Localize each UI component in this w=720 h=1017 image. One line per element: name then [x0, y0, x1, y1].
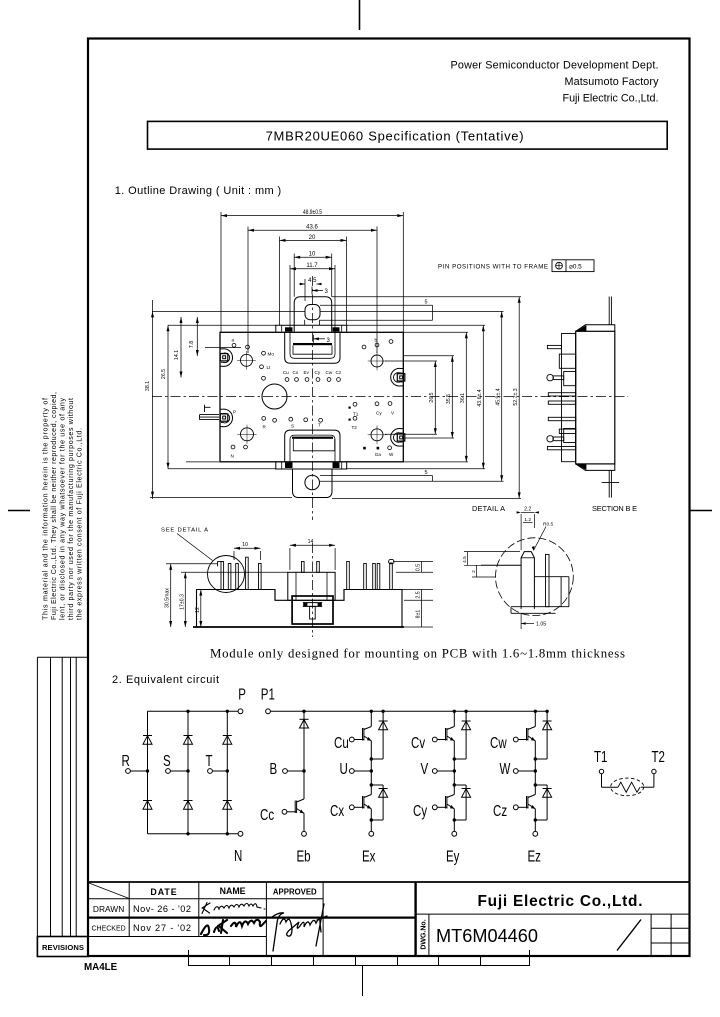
top dimension ladder — [221, 212, 403, 353]
svg-text:2.2: 2.2 — [524, 506, 531, 512]
svg-text:5: 5 — [425, 300, 428, 306]
svg-text:Fuji Electric Co.,Ltd. They sh: Fuji Electric Co.,Ltd. They shall be nei… — [50, 392, 58, 620]
screw cavity — [292, 596, 333, 624]
svg-text:the express written consent of: the express written consent of Fuji Elec… — [76, 428, 84, 620]
svg-text:7MBR20UE060 Specification (Te: 7MBR20UE060 Specification (Tentative) — [266, 129, 524, 144]
node P — [238, 709, 243, 714]
detail A base flange — [511, 607, 569, 614]
U lower IGBT (gate Cx) — [349, 771, 387, 831]
signature K.Hamada — [202, 903, 265, 914]
svg-text:T1: T1 — [353, 412, 359, 417]
svg-text:0.5: 0.5 — [416, 564, 422, 571]
svg-text:3: 3 — [327, 338, 331, 344]
svg-text:8±1: 8±1 — [416, 610, 422, 619]
diode D2 — [184, 736, 193, 745]
svg-text:N: N — [234, 846, 242, 864]
center pedestal — [288, 572, 335, 600]
terminal Ex — [369, 831, 374, 836]
tab hole leader dims "5" top — [320, 305, 433, 320]
top dimension labels — [303, 210, 331, 344]
svg-text:Ey: Ey — [446, 847, 459, 865]
detail A dims — [464, 512, 546, 629]
diode D6 — [223, 801, 232, 810]
svg-text:DWG.No.: DWG.No. — [421, 919, 428, 949]
GDT frame box — [552, 260, 594, 272]
W phase leg — [513, 711, 551, 771]
corner hole top-left — [237, 351, 386, 444]
clip right-top — [391, 368, 405, 386]
detail circle on front view — [208, 556, 245, 593]
svg-text:3: 3 — [325, 289, 329, 295]
note text — [210, 646, 625, 660]
title block texts — [91, 886, 642, 950]
svg-text:SECTION B E: SECTION B E — [592, 504, 637, 513]
terminal R — [126, 769, 148, 774]
front view outline — [197, 590, 403, 628]
svg-text:26.5: 26.5 — [429, 392, 435, 402]
svg-text:PIN POSITIONS WITH TO FRAME: PIN POSITIONS WITH TO FRAME — [438, 264, 548, 271]
revisions box — [37, 937, 88, 957]
side view bottom cap — [576, 464, 615, 471]
signature D.Ikawa — [201, 920, 266, 935]
svg-text:Cw: Cw — [326, 370, 333, 375]
front view left dims — [166, 564, 288, 627]
svg-text:Ez: Ez — [528, 847, 541, 865]
side pins — [547, 345, 576, 449]
svg-text:52.7±.3: 52.7±.3 — [513, 388, 519, 405]
detail A pin — [521, 552, 534, 609]
svg-text:14: 14 — [308, 539, 314, 545]
clip left-bottom — [220, 409, 233, 427]
U phase leg — [349, 711, 387, 771]
terminal B — [283, 769, 304, 774]
svg-text:43.6: 43.6 — [306, 225, 318, 231]
clip left-top — [220, 349, 233, 367]
clip right-bottom — [391, 429, 405, 447]
corner hole bottom-left — [241, 428, 254, 441]
detail A circle — [496, 538, 574, 616]
svg-text:Ev: Ev — [304, 370, 310, 375]
svg-text:T: T — [206, 751, 213, 769]
detail A case surface — [481, 564, 521, 566]
svg-text:Cw: Cw — [490, 733, 507, 751]
bottom tab hole — [305, 475, 320, 490]
svg-text:V: V — [391, 411, 395, 416]
right dimension lines — [320, 297, 521, 499]
drawing frame border — [88, 39, 690, 957]
svg-text:45.9±.4: 45.9±.4 — [495, 388, 501, 405]
top registration mark — [359, 0, 361, 30]
diode D3 — [223, 736, 232, 745]
bottom comb scale — [188, 950, 530, 996]
pin position annotation — [438, 264, 548, 271]
terminal S — [166, 769, 188, 774]
node N — [238, 831, 243, 836]
svg-text:4.5: 4.5 — [462, 556, 468, 563]
svg-text:R0.5: R0.5 — [543, 522, 553, 528]
svg-text:10: 10 — [242, 542, 248, 548]
diode D1 — [143, 736, 152, 745]
svg-text:2.5: 2.5 — [416, 591, 422, 598]
title block grid — [88, 882, 690, 956]
svg-text:20: 20 — [309, 235, 316, 241]
terminal Eb — [302, 831, 307, 836]
side view pin flange — [562, 334, 576, 462]
svg-text:Ex: Ex — [362, 847, 375, 865]
SECTION:CIRCUIT — [126, 709, 657, 836]
svg-text:Cz: Cz — [336, 370, 342, 375]
signature T.Miyashita — [272, 904, 327, 951]
svg-text:26.5: 26.5 — [161, 369, 167, 379]
bottom terminal slot — [285, 430, 340, 462]
front pins left block — [218, 557, 262, 589]
left dimension lines — [150, 300, 306, 499]
svg-text:R: R — [122, 751, 130, 769]
svg-text:17±0.3: 17±0.3 — [179, 594, 185, 610]
svg-text:lent, or disclosed in any way: lent, or disclosed in any way whatsoever… — [59, 398, 67, 620]
left registration mark — [8, 510, 30, 512]
svg-text:1.05: 1.05 — [536, 622, 546, 628]
circuit labels — [122, 685, 666, 865]
svg-text:CHECKED: CHECKED — [91, 925, 125, 932]
svg-text:Fuji Electric Co.,Ltd.: Fuji Electric Co.,Ltd. — [478, 893, 643, 910]
tab hole leader dims "5" bottom — [320, 476, 433, 482]
thermistor TH1 — [599, 769, 656, 795]
svg-text:Mo: Mo — [268, 352, 275, 357]
svg-text:T1: T1 — [594, 747, 608, 765]
W lower IGBT (gate Cz) — [513, 771, 551, 831]
base line — [193, 626, 404, 628]
svg-text:R: R — [263, 425, 267, 430]
svg-text:NAME: NAME — [220, 886, 246, 896]
svg-text:14.1: 14.1 — [174, 350, 180, 360]
bottom mounting tab — [293, 469, 333, 498]
svg-text:11.7: 11.7 — [306, 263, 318, 269]
title box — [148, 121, 668, 149]
bottom flange strip — [276, 462, 347, 469]
svg-text:1.2: 1.2 — [524, 517, 531, 523]
svg-text:Cz: Cz — [493, 801, 507, 819]
front view right dims — [393, 562, 433, 628]
top tab hole — [305, 305, 320, 320]
svg-text:P1: P1 — [261, 685, 275, 703]
top flange strip — [276, 325, 347, 331]
svg-text:Lt: Lt — [267, 365, 272, 370]
header department text — [451, 60, 660, 105]
brake chopper branch — [300, 711, 309, 771]
svg-text:Cx: Cx — [330, 801, 344, 819]
front pins pedestal — [302, 562, 320, 573]
screw — [303, 603, 322, 619]
corner hole bottom-right — [371, 429, 383, 441]
svg-text:P: P — [238, 685, 246, 703]
detail A title — [472, 504, 637, 513]
svg-text:12: 12 — [195, 607, 201, 613]
svg-text:43.6±.4: 43.6±.4 — [477, 389, 483, 406]
svg-text:Cy: Cy — [315, 370, 321, 375]
svg-text:Nov- 26 - '02: Nov- 26 - '02 — [133, 904, 191, 914]
top screw stud — [608, 297, 610, 325]
left protruding pin — [200, 405, 220, 420]
svg-text:DRAWN: DRAWN — [93, 904, 124, 914]
svg-text:V: V — [421, 759, 429, 777]
V lower IGBT (gate Cy) — [432, 771, 470, 831]
inverter P1 bus wire — [270, 710, 547, 712]
svg-text:Eb: Eb — [297, 847, 311, 865]
rectifier leg 3 wire — [226, 711, 228, 834]
svg-text:Module only designed for mount: Module only designed for mounting on PCB… — [210, 646, 625, 660]
svg-text:Cy: Cy — [376, 411, 382, 416]
svg-text:SEE DETAIL A: SEE DETAIL A — [161, 528, 208, 534]
svg-text:N: N — [231, 454, 234, 459]
side view top cap — [576, 325, 615, 332]
terminal W — [513, 769, 535, 774]
terminal Ez — [533, 831, 538, 836]
center hole — [262, 384, 287, 409]
see detail A callout — [161, 528, 208, 534]
module body (top view) — [220, 332, 403, 462]
junction dots — [146, 710, 549, 836]
diode D5 — [184, 801, 193, 810]
vertical centerline front view — [312, 543, 314, 637]
top terminal slot — [285, 332, 340, 364]
horizontal centerline — [152, 396, 628, 398]
front pins right block — [347, 559, 394, 589]
rectifier leg 1 wire — [147, 711, 149, 834]
front view top dims — [234, 545, 335, 570]
top mounting tab — [294, 297, 332, 332]
svg-text:4.5: 4.5 — [308, 278, 317, 284]
svg-text:Cy: Cy — [413, 801, 427, 819]
svg-text:P: P — [233, 410, 236, 415]
svg-text:T2: T2 — [352, 425, 358, 430]
V phase leg — [432, 711, 470, 771]
pin name labels — [231, 338, 396, 459]
svg-text:Nov 27 - '02: Nov 27 - '02 — [133, 923, 191, 933]
svg-text:38.1: 38.1 — [145, 381, 151, 391]
svg-text:APPROVED: APPROVED — [273, 888, 317, 897]
rectifier P bus wire — [148, 710, 239, 712]
IGBT brake (gate Cc) — [282, 771, 304, 831]
terminal U — [349, 769, 371, 774]
svg-text:1. Outline Drawing ( Unit : mm: 1. Outline Drawing ( Unit : mm ) — [115, 185, 282, 197]
svg-text:S: S — [163, 751, 171, 769]
svg-text:36.1: 36.1 — [460, 393, 466, 403]
svg-text:Fuji Electric Co.,Ltd.: Fuji Electric Co.,Ltd. — [563, 93, 659, 105]
svg-text:S: S — [291, 424, 294, 429]
svg-text:Power Semiconductor Developmen: Power Semiconductor Development Dept. — [451, 60, 659, 72]
side view body — [576, 331, 615, 464]
svg-text:W: W — [500, 759, 512, 777]
svg-text:Cx: Cx — [293, 370, 299, 375]
bottom screw stud — [608, 470, 610, 497]
flange datum squares top — [285, 327, 340, 331]
svg-text:DATE: DATE — [150, 887, 177, 897]
corner hole top-right — [371, 355, 383, 367]
svg-text:MT6M04460: MT6M04460 — [436, 925, 538, 946]
rectifier N bus wire — [148, 833, 239, 835]
pin circles grid — [231, 340, 393, 450]
svg-text:5: 5 — [425, 470, 428, 476]
svg-text:10: 10 — [309, 252, 316, 258]
svg-text:Cv: Cv — [411, 733, 425, 751]
rectifier leg 2 wire — [187, 711, 189, 834]
svg-text:48.9±0.5: 48.9±0.5 — [303, 210, 323, 216]
terminal T — [208, 769, 228, 774]
terminal Ey — [452, 831, 457, 836]
diode D4 — [143, 801, 152, 810]
svg-text:third party nor used for the m: third party nor used for the manufacturi… — [67, 398, 75, 620]
revision column strip — [37, 657, 88, 956]
svg-text:MA4LE: MA4LE — [84, 962, 118, 973]
svg-text:DETAIL A: DETAIL A — [472, 504, 505, 513]
svg-text:a: a — [232, 338, 235, 343]
svg-text:2: 2 — [471, 570, 477, 573]
svg-text:Ga: Ga — [375, 452, 382, 457]
revision slash — [617, 920, 641, 951]
svg-text:35.5: 35.5 — [446, 394, 452, 404]
svg-text:T2: T2 — [652, 747, 666, 765]
right registration mark — [690, 510, 712, 512]
svg-text:Cu: Cu — [283, 370, 289, 375]
svg-text:T: T — [318, 423, 321, 428]
svg-text:2. Equivalent circuit: 2. Equivalent circuit — [112, 674, 219, 686]
svg-text:Cu: Cu — [334, 733, 349, 751]
svg-text:This material and the informat: This material and the information herein… — [42, 398, 50, 620]
svg-text:U: U — [340, 759, 348, 777]
left disclaimer vertical text — [42, 392, 84, 620]
vertical centerline top view — [312, 276, 314, 520]
svg-text:Cc: Cc — [260, 805, 274, 823]
terminal V — [432, 769, 454, 774]
svg-text:7.8: 7.8 — [189, 341, 195, 348]
flange datum squares bottom — [285, 463, 340, 469]
node P1 — [266, 709, 271, 714]
svg-text:W: W — [389, 452, 394, 457]
svg-text:⌀0.5: ⌀0.5 — [569, 263, 582, 270]
svg-text:B: B — [270, 759, 278, 777]
detail A right step — [534, 577, 569, 607]
pin datum squares — [349, 407, 380, 450]
detail A rib — [546, 554, 550, 606]
svg-text:REVISIONS: REVISIONS — [42, 943, 84, 952]
svg-text:Matsumoto Factory: Matsumoto Factory — [565, 76, 660, 88]
svg-text:30.5max: 30.5max — [165, 588, 171, 608]
